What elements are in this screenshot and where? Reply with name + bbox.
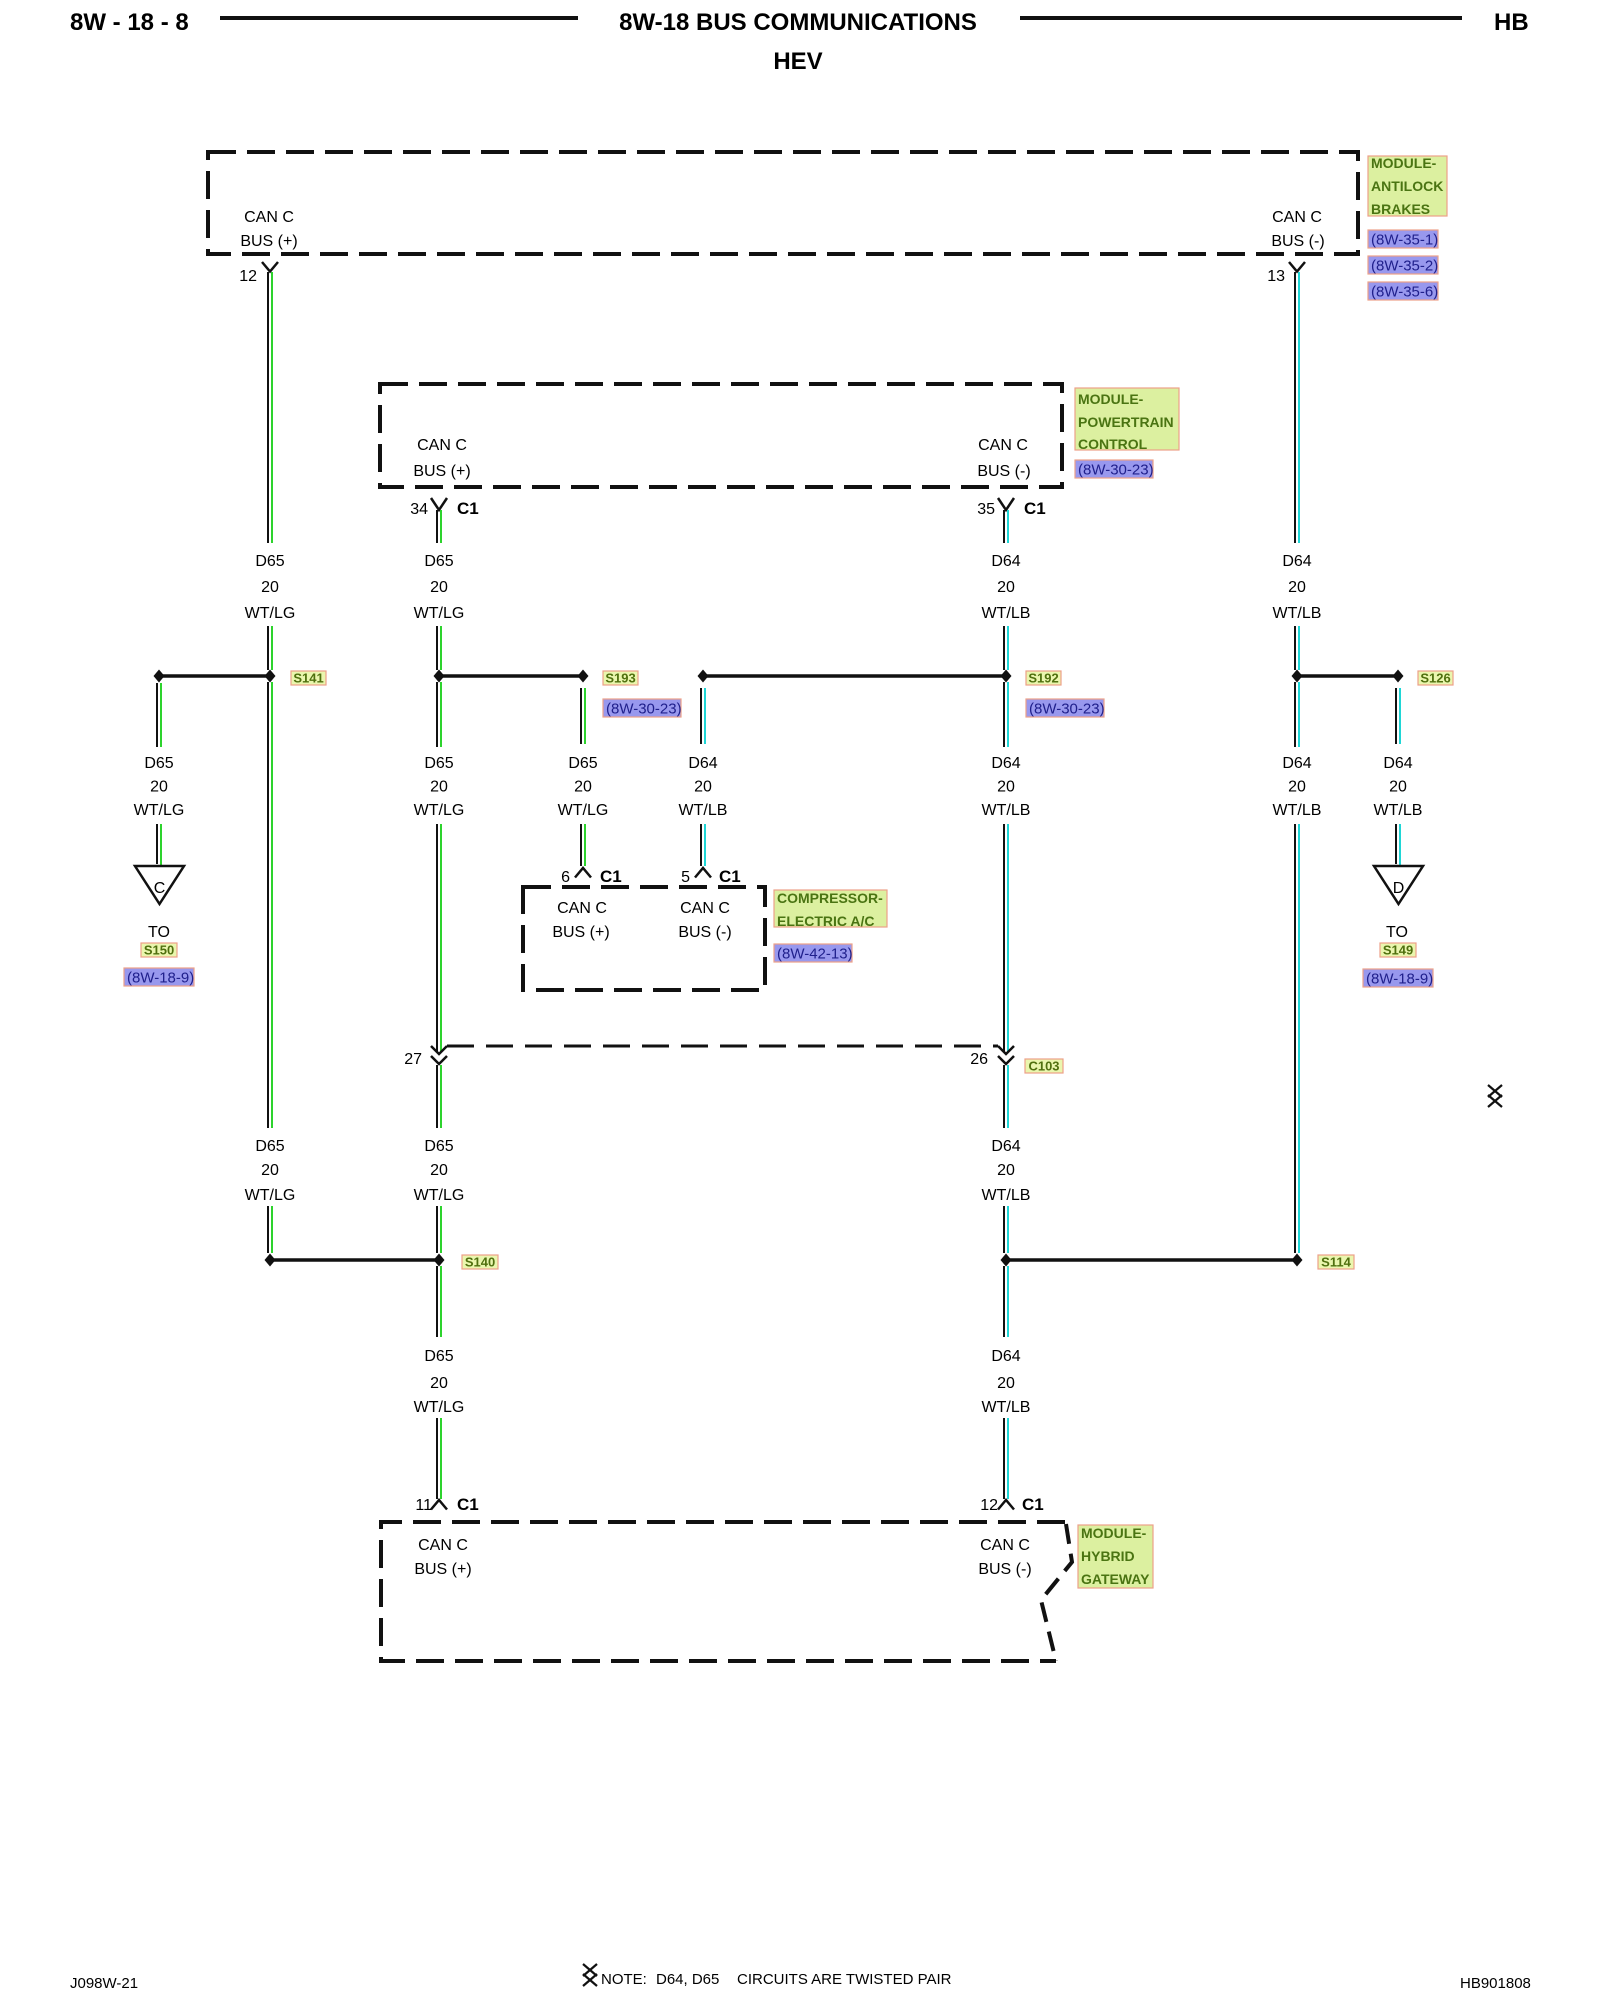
- svg-text:MODULE-: MODULE-: [1078, 391, 1144, 407]
- svg-text:WT/LB: WT/LB: [982, 1399, 1031, 1416]
- svg-text:20: 20: [1288, 779, 1306, 796]
- svg-text:20: 20: [1288, 579, 1306, 596]
- svg-text:CAN C: CAN C: [680, 900, 730, 917]
- svg-text:CAN C: CAN C: [244, 209, 294, 226]
- svg-text:D65: D65: [424, 553, 453, 570]
- svg-text:CAN C: CAN C: [980, 1537, 1030, 1554]
- svg-text:MODULE-: MODULE-: [1371, 155, 1437, 171]
- svg-text:20: 20: [574, 779, 592, 796]
- svg-text:WT/LB: WT/LB: [982, 802, 1031, 819]
- svg-text:D64: D64: [991, 755, 1020, 772]
- svg-text:TO: TO: [148, 924, 170, 941]
- svg-text:C103: C103: [1028, 1059, 1059, 1074]
- svg-text:(8W-35-2): (8W-35-2): [1371, 258, 1438, 275]
- svg-text:(8W-18-9): (8W-18-9): [127, 970, 194, 987]
- svg-text:BUS (-): BUS (-): [1271, 233, 1324, 250]
- svg-text:WT/LG: WT/LG: [414, 1187, 465, 1204]
- svg-text:BUS (-): BUS (-): [678, 924, 731, 941]
- svg-text:S150: S150: [144, 943, 174, 958]
- svg-text:C1: C1: [1022, 1495, 1044, 1514]
- svg-text:(8W-35-6): (8W-35-6): [1371, 284, 1438, 301]
- svg-text:8W - 18 - 8: 8W - 18 - 8: [70, 9, 189, 36]
- svg-text:BUS (-): BUS (-): [978, 1561, 1031, 1578]
- svg-text:(8W-30-23): (8W-30-23): [1078, 462, 1154, 479]
- svg-text:26: 26: [970, 1051, 988, 1068]
- svg-text:WT/LG: WT/LG: [414, 1399, 465, 1416]
- svg-text:POWERTRAIN: POWERTRAIN: [1078, 414, 1174, 430]
- svg-text:20: 20: [150, 779, 168, 796]
- svg-text:BUS (+): BUS (+): [240, 233, 297, 250]
- svg-text:20: 20: [694, 779, 712, 796]
- svg-text:NOTE:: NOTE:: [601, 1971, 647, 1988]
- svg-text:D64, D65: D64, D65: [656, 1971, 719, 1988]
- svg-text:20: 20: [430, 1162, 448, 1179]
- svg-text:WT/LG: WT/LG: [414, 802, 465, 819]
- svg-text:(8W-30-23): (8W-30-23): [1029, 701, 1105, 718]
- svg-text:CAN C: CAN C: [978, 437, 1028, 454]
- svg-text:CONTROL: CONTROL: [1078, 436, 1148, 452]
- svg-text:CAN C: CAN C: [1272, 209, 1322, 226]
- svg-text:D65: D65: [255, 553, 284, 570]
- svg-text:HEV: HEV: [773, 48, 822, 75]
- svg-text:C1: C1: [600, 867, 622, 886]
- svg-text:20: 20: [261, 1162, 279, 1179]
- svg-text:GATEWAY: GATEWAY: [1081, 1571, 1150, 1587]
- svg-text:S149: S149: [1383, 943, 1413, 958]
- svg-text:D65: D65: [424, 1138, 453, 1155]
- svg-text:J098W-21: J098W-21: [70, 1975, 138, 1992]
- svg-text:ANTILOCK: ANTILOCK: [1371, 178, 1443, 194]
- svg-text:CAN C: CAN C: [418, 1537, 468, 1554]
- svg-text:BUS (+): BUS (+): [552, 924, 609, 941]
- svg-text:20: 20: [997, 779, 1015, 796]
- svg-text:CAN C: CAN C: [417, 437, 467, 454]
- svg-text:WT/LG: WT/LG: [245, 1187, 296, 1204]
- svg-text:WT/LG: WT/LG: [558, 802, 609, 819]
- svg-text:S141: S141: [293, 671, 323, 686]
- svg-text:20: 20: [997, 579, 1015, 596]
- svg-text:ELECTRIC A/C: ELECTRIC A/C: [777, 913, 874, 929]
- svg-text:11: 11: [415, 1497, 432, 1514]
- svg-text:BUS (-): BUS (-): [977, 463, 1030, 480]
- svg-text:S193: S193: [605, 671, 635, 686]
- svg-text:35: 35: [977, 501, 995, 518]
- svg-text:C1: C1: [719, 867, 741, 886]
- svg-text:D65: D65: [424, 755, 453, 772]
- svg-text:HB: HB: [1494, 9, 1529, 36]
- svg-text:20: 20: [997, 1162, 1015, 1179]
- svg-text:34: 34: [410, 501, 428, 518]
- svg-text:BUS (+): BUS (+): [414, 1561, 471, 1578]
- svg-text:C: C: [154, 880, 166, 897]
- svg-text:D64: D64: [688, 755, 717, 772]
- svg-text:D65: D65: [255, 1138, 284, 1155]
- svg-text:WT/LG: WT/LG: [245, 605, 296, 622]
- svg-text:CAN C: CAN C: [557, 900, 607, 917]
- svg-text:(8W-42-13): (8W-42-13): [777, 946, 853, 963]
- svg-text:27: 27: [404, 1051, 422, 1068]
- svg-text:C1: C1: [1024, 499, 1046, 518]
- svg-text:D64: D64: [1282, 755, 1311, 772]
- svg-text:CIRCUITS ARE TWISTED PAIR: CIRCUITS ARE TWISTED PAIR: [737, 1971, 952, 1988]
- svg-text:D64: D64: [991, 553, 1020, 570]
- svg-text:D64: D64: [991, 1138, 1020, 1155]
- svg-text:MODULE-: MODULE-: [1081, 1525, 1147, 1541]
- svg-text:BUS (+): BUS (+): [413, 463, 470, 480]
- svg-text:S114: S114: [1321, 1255, 1351, 1270]
- svg-text:20: 20: [997, 1375, 1015, 1392]
- svg-text:(8W-30-23): (8W-30-23): [606, 701, 682, 718]
- svg-text:13: 13: [1267, 268, 1285, 285]
- svg-text:C1: C1: [457, 1495, 479, 1514]
- svg-text:BRAKES: BRAKES: [1371, 201, 1430, 217]
- svg-text:20: 20: [430, 779, 448, 796]
- svg-text:5: 5: [681, 869, 690, 886]
- svg-text:(8W-18-9): (8W-18-9): [1366, 971, 1433, 988]
- svg-text:WT/LB: WT/LB: [982, 605, 1031, 622]
- svg-text:COMPRESSOR-: COMPRESSOR-: [777, 890, 883, 906]
- svg-text:D64: D64: [991, 1348, 1020, 1365]
- svg-text:(8W-35-1): (8W-35-1): [1371, 232, 1438, 249]
- svg-text:20: 20: [430, 579, 448, 596]
- svg-text:20: 20: [261, 579, 279, 596]
- svg-text:TO: TO: [1386, 924, 1408, 941]
- svg-text:20: 20: [430, 1375, 448, 1392]
- svg-text:6: 6: [561, 869, 570, 886]
- svg-text:D65: D65: [424, 1348, 453, 1365]
- svg-text:HB901808: HB901808: [1460, 1975, 1531, 1992]
- svg-text:S126: S126: [1420, 671, 1450, 686]
- svg-text:20: 20: [1389, 779, 1407, 796]
- svg-text:WT/LB: WT/LB: [982, 1187, 1031, 1204]
- svg-text:8W-18 BUS COMMUNICATIONS: 8W-18 BUS COMMUNICATIONS: [619, 9, 977, 36]
- svg-text:WT/LG: WT/LG: [134, 802, 185, 819]
- svg-text:WT/LB: WT/LB: [1374, 802, 1423, 819]
- svg-text:12: 12: [980, 1497, 998, 1514]
- svg-text:C1: C1: [457, 499, 479, 518]
- svg-text:WT/LB: WT/LB: [1273, 605, 1322, 622]
- svg-text:D64: D64: [1282, 553, 1311, 570]
- svg-text:D: D: [1393, 880, 1405, 897]
- svg-text:WT/LB: WT/LB: [1273, 802, 1322, 819]
- svg-text:D64: D64: [1383, 755, 1412, 772]
- svg-text:S192: S192: [1028, 671, 1058, 686]
- svg-text:HYBRID: HYBRID: [1081, 1548, 1135, 1564]
- svg-text:12: 12: [239, 268, 257, 285]
- svg-text:WT/LG: WT/LG: [414, 605, 465, 622]
- svg-text:D65: D65: [568, 755, 597, 772]
- svg-text:D65: D65: [144, 755, 173, 772]
- svg-text:WT/LB: WT/LB: [679, 802, 728, 819]
- svg-text:S140: S140: [465, 1255, 495, 1270]
